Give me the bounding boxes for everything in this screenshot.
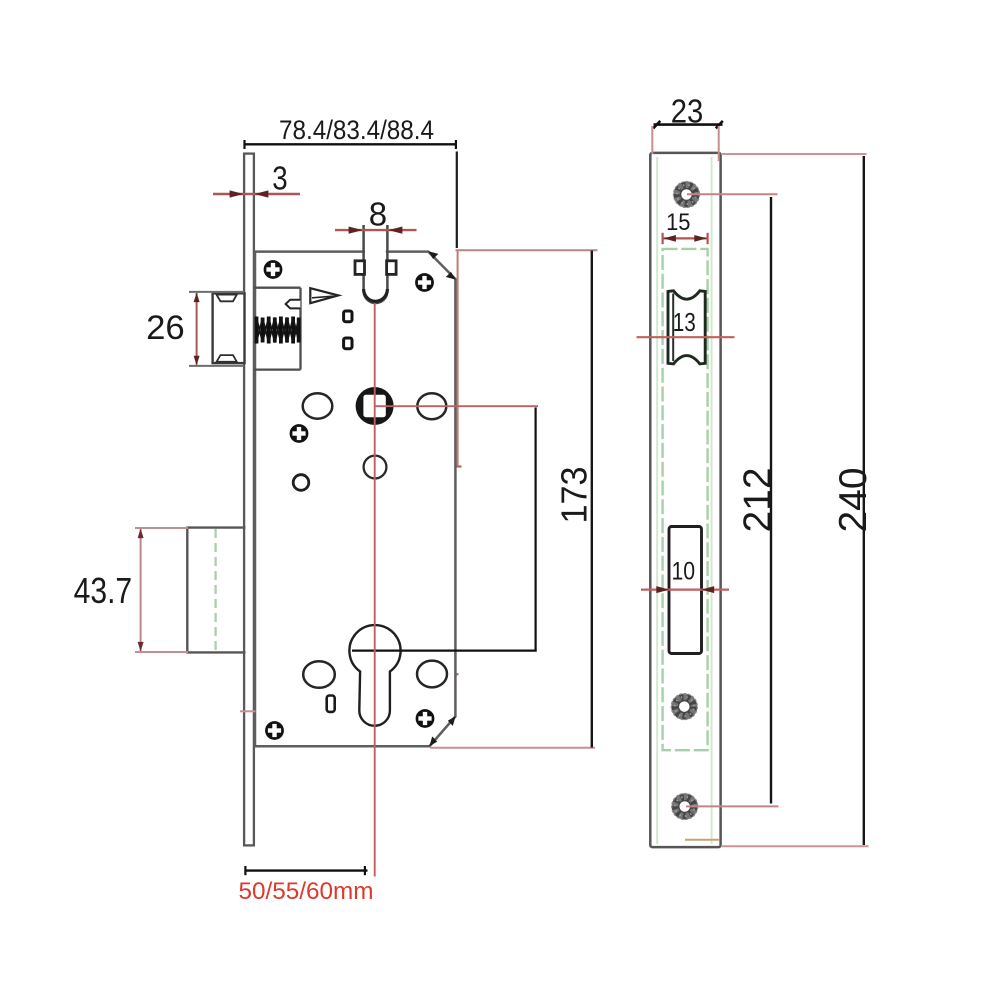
phillips screw mid-left [290, 424, 309, 443]
red tick at body edge level of lower right oval [442, 673, 459, 675]
svg-text:78.4/83.4/88.4: 78.4/83.4/88.4 [279, 116, 434, 145]
red extension line from plate top to 240 dim [721, 153, 867, 155]
dimension 8 (latch guide width) [335, 196, 417, 234]
dimension 10 red centerline with arrows [641, 586, 729, 593]
green dashed cutout window [663, 249, 708, 750]
svg-text:13: 13 [673, 308, 696, 337]
extension line from right end down to body corner [456, 152, 458, 249]
svg-text:173: 173 [555, 466, 595, 523]
deadbolt bottom edge [187, 651, 246, 653]
chamfer leader arrows top-right corner [428, 251, 456, 279]
small square hole upper [344, 311, 352, 322]
red extension line top (body top edge extended right to 173 dim) [456, 249, 598, 251]
dimension 173 vertical [555, 251, 595, 748]
latch bolt bottom insert notch [217, 355, 237, 362]
svg-text:8: 8 [369, 196, 387, 233]
svg-text:43.7: 43.7 [74, 571, 133, 611]
small flag on latch box [286, 300, 301, 309]
oval hole right of hub [417, 393, 446, 419]
oval hole right of cylinder [417, 661, 447, 688]
small square hole lower [344, 338, 352, 349]
deadbolt block protruding left [187, 527, 246, 654]
deadbolt front face [186, 527, 188, 654]
latch bolt top insert notch [217, 295, 237, 302]
phillips screw bottom-left [265, 721, 284, 740]
red extension line down right corner [457, 251, 459, 468]
bottom screw hole (knurled) [672, 794, 698, 820]
red centerline through latch spool [637, 336, 735, 338]
spindle hub with square follower [356, 387, 394, 425]
small plain circle left [293, 475, 309, 491]
dimension 50/55/60mm bottom [238, 866, 373, 905]
dimension 3 (faceplate thickness) [213, 160, 300, 198]
oval hole left of hub [303, 393, 333, 418]
red centerline vertical through latch guide, hub, cylinder [374, 303, 376, 877]
svg-text:15: 15 [666, 208, 690, 235]
dimension 212 [737, 197, 780, 804]
svg-text:10: 10 [671, 557, 695, 585]
red line from bottom screw to 212 dim [686, 805, 779, 807]
latch guide channel at top [355, 225, 396, 303]
dimension 26 [146, 292, 244, 366]
small circle below hub [364, 456, 387, 479]
phillips screw bottom-right [416, 709, 435, 728]
dimension 15 [663, 208, 708, 244]
svg-text:23: 23 [671, 92, 704, 130]
guide side tab left [355, 261, 365, 275]
phillips screw top-right [415, 273, 434, 292]
svg-text:3: 3 [272, 160, 287, 197]
dimension 240 [832, 156, 875, 845]
red tick crossing faceplate near bottom [240, 710, 256, 712]
latch spool cutout [668, 291, 705, 364]
svg-text:240: 240 [832, 467, 875, 532]
dimension 43.7 [74, 528, 188, 652]
red extension line bottom (body bottom edge extended right to 173 dim) [430, 747, 595, 749]
deadbolt cutout [669, 527, 702, 654]
euro cylinder profile [349, 625, 400, 726]
red tick at body edge level of small circle [445, 465, 462, 467]
faceplate left view [243, 153, 255, 846]
dimension 23 [652, 92, 723, 161]
top screw hole (knurled) [674, 182, 700, 208]
small slot below left oval [327, 696, 335, 712]
phillips screw top-left [264, 260, 283, 279]
middle screw hole (knurled) [671, 694, 697, 720]
guide side tab right [387, 261, 397, 275]
red line from top screw to 212 dim [687, 193, 778, 195]
lock body outline with chamfered right corners [255, 252, 455, 747]
deadbolt hidden green line [214, 529, 216, 651]
green edge hidden lines full height [656, 157, 658, 844]
tan line inside plate bottom [685, 839, 719, 841]
svg-text:50/55/60mm: 50/55/60mm [238, 878, 373, 905]
dimension 78.4/83.4/88.4 top [245, 116, 457, 248]
svg-text:26: 26 [146, 309, 185, 347]
red extension line from plate bottom to 240 dim [721, 845, 869, 847]
deadbolt top edge [187, 526, 246, 528]
step bracket from spindle line to cylinder center [352, 408, 537, 651]
latch spring coil [257, 317, 299, 344]
latch housing box inside body [254, 288, 301, 370]
oval hole left of cylinder [303, 661, 335, 688]
latch bolt protruding left of faceplate [213, 293, 245, 363]
red centerline horizontal from hub to 173 bracket [375, 405, 539, 407]
wedge pointer (hollow triangle) [310, 288, 338, 303]
faceplate front view [650, 153, 720, 847]
svg-text:212: 212 [737, 467, 780, 532]
chamfer leader arrows bottom-right corner [429, 716, 455, 746]
